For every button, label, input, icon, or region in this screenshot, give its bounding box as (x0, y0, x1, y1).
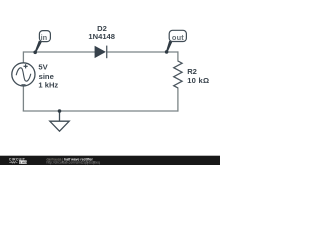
svg-text:out: out (172, 33, 184, 42)
wire top right segment (107, 51, 178, 53)
junction out (165, 50, 169, 54)
svg-text:LAB: LAB (20, 160, 28, 164)
svg-text:in: in (41, 33, 48, 42)
svg-text:1N4148: 1N4148 (88, 32, 115, 41)
junction in (33, 51, 37, 55)
wire top left segment (23, 51, 95, 53)
voltage source V1 (12, 63, 35, 86)
svg-text:10 kΩ: 10 kΩ (187, 76, 209, 85)
svg-text:5V: 5V (38, 62, 48, 71)
label R2 10 kOhm (187, 67, 209, 85)
node in flag (35, 31, 51, 53)
node out flag (166, 30, 186, 52)
wire right vertical upper (177, 51, 179, 61)
value label 5V sine 1 kHz (38, 62, 58, 89)
diode D2 (95, 46, 107, 59)
wire bottom (23, 110, 179, 112)
ground (50, 111, 69, 131)
wire left vertical lower (22, 86, 24, 112)
svg-text:R2: R2 (187, 67, 197, 76)
resistor R2 (174, 61, 182, 88)
svg-text:http://circuitlab.com/cmd2qbjd: http://circuitlab.com/cmd2qbjdsdjbeq (47, 161, 100, 165)
label D2 1N4148 (88, 24, 115, 41)
wire left vertical (22, 51, 24, 63)
wire right vertical lower (177, 88, 179, 112)
watermark bar (0, 156, 220, 165)
junction ground (58, 109, 62, 113)
svg-text:1 kHz: 1 kHz (38, 80, 58, 89)
